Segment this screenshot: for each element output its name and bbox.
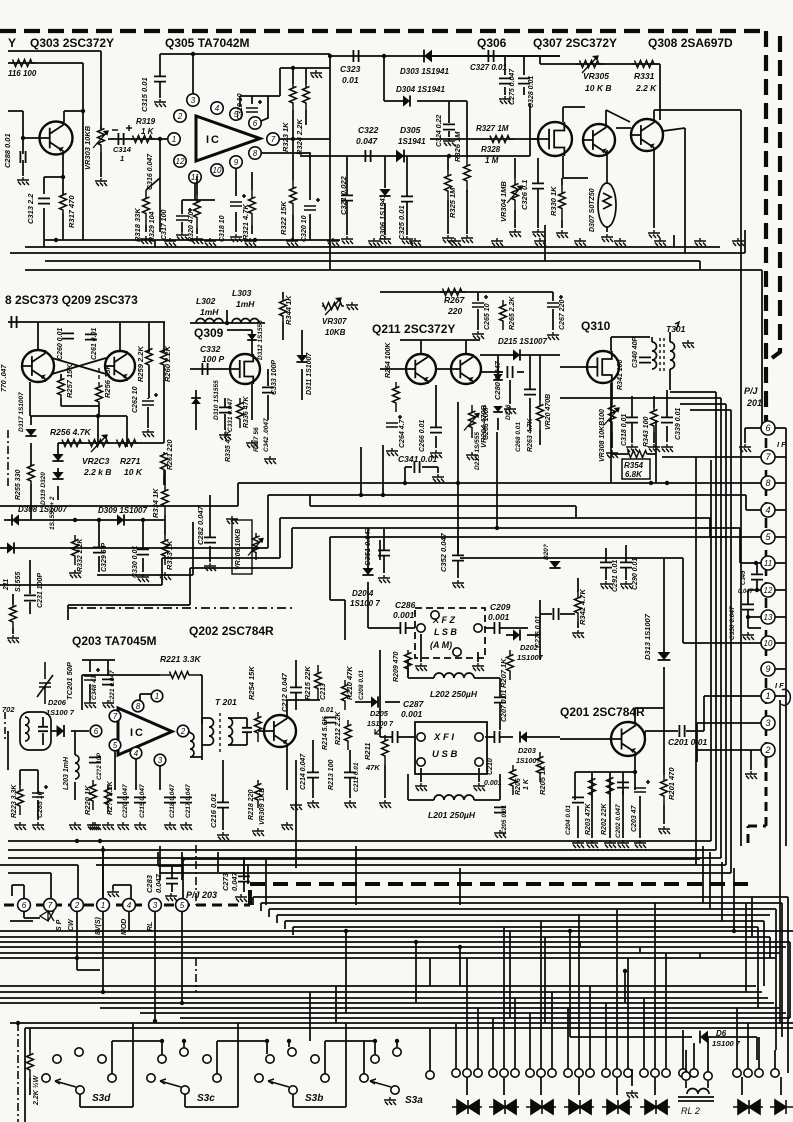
resistor R202 xyxy=(607,778,614,799)
svg-text:Q201 2SC784R: Q201 2SC784R xyxy=(560,705,645,719)
junction u0a xyxy=(75,839,79,843)
ground C265 xyxy=(472,331,484,339)
diodes grpD tail xyxy=(578,1077,580,1095)
resistor R324 xyxy=(303,84,310,110)
resistor R223 xyxy=(17,785,24,815)
bus line y253 xyxy=(10,230,745,253)
vr 10 xyxy=(721,862,723,921)
diode D313 xyxy=(658,652,671,660)
svg-text:S3c: S3c xyxy=(197,1093,215,1104)
vd m2 xyxy=(309,992,311,1041)
connector p3 xyxy=(149,899,162,912)
connector 10 xyxy=(761,636,775,650)
svg-text:7: 7 xyxy=(48,901,53,910)
svg-text:L202 250µH: L202 250µH xyxy=(430,689,478,699)
wire C333 xyxy=(267,369,269,420)
switch S3c tail xyxy=(185,1023,238,1107)
svg-text:10KB: 10KB xyxy=(325,328,346,337)
ground C330 xyxy=(137,574,149,582)
junction p3 xyxy=(153,1019,157,1023)
switch S3c drop3 xyxy=(288,1041,290,1047)
wire left edge res xyxy=(12,594,14,634)
vbus 4 xyxy=(680,404,726,865)
connector p2 xyxy=(71,899,84,912)
svg-text:7: 7 xyxy=(271,135,276,144)
diode D306 xyxy=(379,189,390,196)
wire VR303 down xyxy=(100,152,102,177)
wire Q209 emitters xyxy=(30,382,127,447)
vr 2 xyxy=(769,937,771,958)
svg-text:C325 0.01: C325 0.01 xyxy=(397,205,406,240)
wire Q202 base xyxy=(258,730,264,732)
svg-text:R342 4.7K: R342 4.7K xyxy=(578,589,587,625)
ground mid2 xyxy=(344,800,356,808)
resistor R255 xyxy=(28,465,35,485)
capacitor C352 xyxy=(452,555,464,560)
ground R324 rail xyxy=(310,70,322,78)
wire Q202 c xyxy=(287,700,320,716)
svg-text:D312 1S1555: D312 1S1555 xyxy=(257,320,264,360)
wire c10 drop xyxy=(683,558,761,643)
svg-text:2.2K ½W: 2.2K ½W xyxy=(32,1074,40,1106)
diodes grpA drop1 xyxy=(466,958,468,1069)
stepd 6 xyxy=(429,958,431,986)
pin XF2 a xyxy=(417,624,425,632)
switch S3a c1 xyxy=(371,1055,379,1063)
wire D313 xyxy=(663,558,665,708)
ground C291 xyxy=(600,581,612,589)
wire pin3 d xyxy=(159,766,161,790)
bus a4 xyxy=(0,946,786,948)
connector 6 xyxy=(761,421,775,435)
inductor T301 pri xyxy=(652,342,657,369)
svg-text:VR307: VR307 xyxy=(322,317,347,326)
ground C3I8 b xyxy=(626,444,638,452)
diodes grpD diode pair xyxy=(564,1100,594,1114)
wire pin9 down xyxy=(235,168,237,232)
svg-text:201: 201 xyxy=(746,398,762,408)
wire pin5 d xyxy=(114,751,116,790)
wire R334 xyxy=(164,470,166,535)
capacitor C217 xyxy=(180,797,192,802)
ground C350 xyxy=(742,632,754,640)
wire R344 xyxy=(282,292,284,340)
ground C221 xyxy=(102,700,114,708)
inductor T301 sec xyxy=(670,342,675,369)
capacitor C321 xyxy=(341,195,353,200)
svg-text:R323 1K: R323 1K xyxy=(281,122,290,152)
wire conn2 gnd xyxy=(750,750,752,770)
wire C267 xyxy=(552,292,554,330)
junction Q303 base xyxy=(21,136,25,140)
resistor R203 xyxy=(589,778,596,800)
pin 8 xyxy=(249,147,261,159)
capacitor C332 xyxy=(202,363,207,375)
bus u4 xyxy=(8,873,731,899)
wire C3I8 xyxy=(632,396,654,443)
wire vert rl xyxy=(624,971,626,1003)
vdrop e xyxy=(243,857,245,880)
wire R260 xyxy=(163,322,165,443)
resistor R221 xyxy=(160,672,200,679)
svg-text:0.01: 0.01 xyxy=(342,75,359,85)
ground mid3 xyxy=(379,800,391,808)
capacitor C280 xyxy=(507,366,512,378)
svg-text:RL: RL xyxy=(147,922,154,931)
line y558 xyxy=(460,557,683,559)
svg-text:C288 0.01: C288 0.01 xyxy=(3,133,12,168)
diode D6 xyxy=(700,1031,708,1044)
ground row 12 xyxy=(614,238,626,246)
svg-text:S3d: S3d xyxy=(92,1093,111,1104)
connector 9 xyxy=(761,662,775,676)
ground row 6 xyxy=(368,238,380,246)
wire T201 core xyxy=(219,713,221,753)
bracket c6 xyxy=(12,885,24,899)
diodes grpD drop1 xyxy=(578,915,580,1069)
capacitor X201 xyxy=(38,727,48,731)
diode D308 xyxy=(12,514,19,525)
ground R342 xyxy=(572,630,584,638)
ground row 7 xyxy=(409,238,421,246)
junction emit xyxy=(96,414,100,418)
ground mid4 xyxy=(290,802,302,810)
connector p5 xyxy=(176,899,189,912)
svg-text:116 100: 116 100 xyxy=(8,69,37,78)
svg-text:R206: R206 xyxy=(515,778,522,795)
bus line y270 xyxy=(25,270,762,420)
ground row 9 xyxy=(491,238,503,246)
bus a6 xyxy=(0,957,776,959)
resistor R271 xyxy=(116,440,138,447)
wire C320 xyxy=(309,214,311,232)
ground C341 xyxy=(432,474,444,482)
switch S3c drop2 xyxy=(266,1041,268,1054)
wire C285 xyxy=(37,770,39,820)
dashdot left low xyxy=(4,712,6,742)
resistor R327 xyxy=(487,136,514,143)
svg-text:D213 1S/555: D213 1S/555 xyxy=(474,432,481,470)
svg-text:CW: CW xyxy=(68,918,75,931)
wire header underline xyxy=(8,51,101,129)
pin XF1 d xyxy=(475,758,483,766)
svg-text:R320 470: R320 470 xyxy=(188,212,195,242)
svg-text:C203 47: C203 47 xyxy=(631,804,638,832)
ground row 13 xyxy=(654,238,666,246)
svg-text:VR304 1MB: VR304 1MB xyxy=(499,181,508,222)
dashdot mid2 xyxy=(195,958,197,992)
svg-text:R212 2.2K: R212 2.2K xyxy=(335,711,342,745)
inductor T201 sec xyxy=(228,718,233,745)
line y1008 xyxy=(100,1007,780,1009)
svg-text:TC201 50P: TC201 50P xyxy=(65,661,74,700)
connector 1 xyxy=(761,689,775,703)
svg-text:C324 0.22: C324 0.22 xyxy=(436,115,443,147)
svg-text:C290 0.01: C290 0.01 xyxy=(632,558,639,590)
wire C201 row xyxy=(645,696,761,739)
wire R261 down xyxy=(163,475,165,485)
vr 11 xyxy=(709,852,711,909)
capacitor C313 xyxy=(38,198,50,203)
wire D6 up xyxy=(569,931,571,1037)
junction mid1 xyxy=(359,493,363,497)
resistor R321 xyxy=(249,190,256,225)
ground C290 xyxy=(620,581,632,589)
transistor Q202 xyxy=(264,715,296,747)
svg-text:P/J: P/J xyxy=(744,386,759,396)
wire C325 xyxy=(406,156,408,235)
wire R267 rail xyxy=(380,291,505,293)
svg-text:0.047: 0.047 xyxy=(154,873,163,893)
vdrop d xyxy=(217,852,219,872)
wire Q310 gate xyxy=(560,366,588,368)
svg-text:D205: D205 xyxy=(370,709,389,718)
capacitor C221 xyxy=(102,679,114,684)
svg-text:R256 4.7K: R256 4.7K xyxy=(50,427,91,437)
vd m5 xyxy=(345,931,347,1013)
vbus 1 xyxy=(710,460,712,841)
diodes grpB diode pair xyxy=(489,1100,519,1114)
switch S3c c4 xyxy=(147,1074,155,1082)
diodes grpF drop2 xyxy=(665,953,667,1069)
wire L303 tap xyxy=(226,310,228,323)
wire Q211 link xyxy=(400,340,480,369)
wire Q310 drain xyxy=(611,337,650,351)
contact gx2 xyxy=(690,1069,698,1077)
vr 9 xyxy=(733,868,735,931)
diodes grpA circ2 xyxy=(474,1069,482,1077)
line y529 xyxy=(292,528,761,563)
bus line y261 xyxy=(45,260,700,262)
pin 12 xyxy=(174,155,186,167)
capacitor C287 xyxy=(392,731,397,743)
capacitor C339 xyxy=(661,417,673,422)
line y495 xyxy=(268,495,761,510)
pin 2 xyxy=(174,110,186,122)
diodes grpB circ1 xyxy=(500,1069,508,1077)
ground C283 xyxy=(165,893,177,901)
diodes grpF circ0 xyxy=(640,1069,648,1077)
ground c219 xyxy=(134,822,146,830)
capacitor T201 tune xyxy=(242,728,252,732)
wire C275 stub xyxy=(504,56,506,95)
wire Q303 base xyxy=(23,137,40,139)
svg-text:R332 2.2K: R332 2.2K xyxy=(77,538,84,572)
svg-text:IC: IC xyxy=(130,727,145,739)
wire R330 xyxy=(561,178,563,228)
switch S3d dota xyxy=(160,1039,164,1043)
bus u1 xyxy=(8,849,716,851)
svg-text:1: 1 xyxy=(172,135,176,144)
svg-text:R221 3.3K: R221 3.3K xyxy=(160,654,201,664)
wire R354 xyxy=(611,420,656,483)
svg-text:RL 2: RL 2 xyxy=(681,1106,700,1116)
switch S3d dotb xyxy=(182,1039,186,1043)
diode D304 xyxy=(403,95,410,106)
diodes grpC tail xyxy=(540,1077,542,1095)
svg-text:VR2C3: VR2C3 xyxy=(82,456,110,466)
switch S3b drop2 xyxy=(374,1041,376,1054)
wire gx xyxy=(683,1030,694,1069)
svg-text:C342 .0047: C342 .0047 xyxy=(263,418,270,452)
wire Q306 drain xyxy=(563,107,585,122)
diode D320 xyxy=(52,472,63,479)
capacitor C207 xyxy=(494,697,506,702)
svg-text:C207 0.01: C207 0.01 xyxy=(501,690,508,722)
pot VR303 xyxy=(98,126,105,152)
resistor R209 xyxy=(405,650,412,676)
ground C321 xyxy=(341,236,353,244)
wire D203 out xyxy=(527,736,560,738)
ground q201 4 xyxy=(617,840,629,848)
pin XF2 c xyxy=(431,611,439,619)
resistor R344 xyxy=(280,298,287,322)
stair 1 xyxy=(0,483,238,506)
diodes grpA drop2 xyxy=(477,1008,479,1069)
diodes grpA circ0 xyxy=(452,1069,460,1077)
bus u0 xyxy=(8,840,711,842)
pin 1 xyxy=(168,133,180,145)
pin q5 xyxy=(109,739,121,751)
switch S3c arrow xyxy=(160,1079,181,1087)
pot VR304 xyxy=(507,186,522,203)
wire T301 core xyxy=(659,338,661,372)
capacitor C267 xyxy=(547,295,563,307)
wire C326 xyxy=(537,158,539,228)
resistor R211 xyxy=(382,735,389,765)
svg-text:C260 0.01: C260 0.01 xyxy=(57,328,64,360)
junction 1023 xyxy=(16,1021,20,1025)
vbus 7 xyxy=(761,420,763,424)
op-amp IC Q305 xyxy=(196,116,260,161)
svg-text:C333 100P: C333 100P xyxy=(271,360,278,395)
svg-text:C2?2 10P: C2?2 10P xyxy=(97,752,103,780)
bus vertical stubs xyxy=(44,225,700,270)
filter XF1 box xyxy=(415,722,487,774)
svg-text:C318 10: C318 10 xyxy=(219,215,226,242)
bus u3 xyxy=(0,865,726,899)
transistor Q209b xyxy=(105,351,135,381)
svg-text:4: 4 xyxy=(127,901,132,910)
svg-text:R321 4.7K: R321 4.7K xyxy=(241,204,250,240)
wire D202 xyxy=(506,634,540,636)
diode D202 xyxy=(513,629,520,640)
capacitor C325 xyxy=(401,196,413,201)
diode D305 xyxy=(396,150,404,163)
capacitor C213 xyxy=(324,717,336,722)
transistor Q211a xyxy=(406,354,436,384)
svg-text:R337 56: R337 56 xyxy=(253,427,260,452)
stepd 5 xyxy=(699,953,701,958)
wire row y158 ext xyxy=(470,139,530,156)
switch S3b tail xyxy=(293,1023,346,1107)
vdrop p3 xyxy=(154,911,156,1021)
vr 4 xyxy=(789,942,791,1018)
diode 211 xyxy=(7,542,14,553)
line y518 xyxy=(280,518,761,537)
svg-text:C352 0.047: C352 0.047 xyxy=(439,532,448,572)
wire Q307 c xyxy=(606,110,630,124)
ground q201 2 xyxy=(586,840,598,848)
oscillator X201 can xyxy=(20,712,51,750)
junction pin7 xyxy=(291,137,295,141)
wire bias row xyxy=(58,442,164,444)
ground q201 3 xyxy=(604,840,616,848)
ground C339 xyxy=(661,444,673,452)
contact fr2 xyxy=(744,1069,752,1077)
ground C325 xyxy=(401,236,413,244)
relay RL2 xyxy=(678,1081,714,1101)
svg-text:R354: R354 xyxy=(624,461,644,470)
wire C321 xyxy=(346,156,348,235)
svg-text:C218 0.047: C218 0.047 xyxy=(169,784,176,818)
wire Q308 c out xyxy=(654,110,741,255)
wire conn6 stub xyxy=(745,428,761,443)
capacitor C283 xyxy=(166,878,178,883)
wire D6 row xyxy=(570,1037,757,1060)
ground row 5 xyxy=(327,238,339,246)
wire Q211 out xyxy=(380,368,406,370)
pin 3 xyxy=(187,94,199,106)
diodes grpE tail xyxy=(616,1077,618,1095)
resistor R260 xyxy=(161,349,168,367)
wire R201 xyxy=(663,708,665,824)
ground q201 5 xyxy=(634,840,646,848)
svg-text:R326 1M: R326 1M xyxy=(453,131,462,162)
wire C212 xyxy=(295,660,297,710)
ground C267 xyxy=(547,332,559,340)
junction u1 xyxy=(101,848,105,852)
svg-text:L203 1mH: L203 1mH xyxy=(63,756,70,790)
pin 4 xyxy=(211,102,223,114)
ground C326 xyxy=(532,229,544,237)
svg-text:R341 100: R341 100 xyxy=(617,360,624,390)
diodes grpB tail xyxy=(503,1077,505,1095)
svg-text:1: 1 xyxy=(765,691,770,701)
switch S3c c5 xyxy=(213,1074,221,1082)
svg-text:10: 10 xyxy=(213,166,222,175)
wire X201 xyxy=(42,717,44,745)
svg-text:10 K B: 10 K B xyxy=(585,83,611,93)
ground q201 1 xyxy=(572,840,584,848)
diodes grpB drop2 xyxy=(514,998,516,1069)
wire pin q1 link xyxy=(140,694,151,700)
capacitor C201 xyxy=(679,725,684,737)
diodes grpE diode pair xyxy=(602,1100,632,1114)
ground R201 xyxy=(658,826,670,834)
svg-text:C266 0.01: C266 0.01 xyxy=(419,420,426,452)
svg-text:C322: C322 xyxy=(358,125,379,135)
svg-text:R218 220: R218 220 xyxy=(248,790,255,820)
switch S3b c3 xyxy=(311,1055,319,1063)
wire R325c dn xyxy=(447,156,449,234)
svg-text:D304 1S1941: D304 1S1941 xyxy=(396,85,445,94)
capacitor C263 xyxy=(524,389,536,394)
wire q201 grounds xyxy=(578,791,640,838)
wire mid rails xyxy=(296,740,385,800)
svg-text:C348 47: C348 47 xyxy=(91,675,98,700)
line to pin8 xyxy=(238,482,761,484)
diodes grpF tail xyxy=(654,1077,656,1095)
junction 11 xyxy=(754,561,758,565)
svg-text:1 K: 1 K xyxy=(141,127,155,136)
svg-text:7: 7 xyxy=(113,712,118,721)
svg-text:R264 100K: R264 100K xyxy=(385,342,392,378)
resistor R256h xyxy=(61,440,84,447)
diodes grpC drop2 xyxy=(551,992,553,1069)
svg-text:C349: C349 xyxy=(741,570,747,585)
svg-text:C339 0.01: C339 0.01 xyxy=(675,408,682,440)
